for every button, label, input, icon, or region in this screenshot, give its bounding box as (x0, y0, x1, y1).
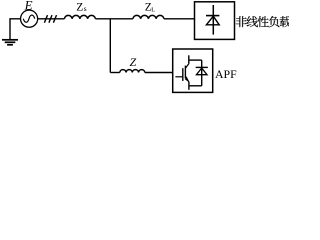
inductor Zs (64, 15, 95, 18)
freewheel diode lead (201, 60, 203, 86)
junction wire down (109, 19, 111, 73)
IGBT emitter lead (188, 82, 190, 90)
AC source E circle (21, 10, 38, 27)
wire ZL to load box (164, 18, 195, 20)
label char 非 (236, 16, 247, 27)
svg-text:L: L (151, 7, 155, 14)
three-phase slashes (44, 15, 56, 23)
IGBT emitter diagonal (185, 76, 189, 82)
wire Zs to junction to ZL (95, 18, 132, 20)
svg-text:E: E (24, 0, 33, 12)
wire junction corner to Z (110, 72, 120, 74)
svg-text:s: s (84, 4, 87, 13)
IGBT collector diagonal (185, 64, 188, 68)
diode D1 cathode bar (206, 15, 219, 17)
freewheel diode bar (196, 66, 208, 68)
nonlinear load box (195, 2, 235, 40)
IGBT channel bar (184, 66, 186, 79)
ground (2, 40, 18, 45)
label char 载 (280, 16, 291, 27)
inductor ZL (133, 15, 164, 18)
wire source to Zs (38, 18, 65, 20)
IGBT collector lead (188, 55, 190, 64)
label char 性 (258, 16, 269, 27)
bottom connector to diode (189, 85, 202, 87)
label char 线 (247, 16, 258, 27)
wire from source to ground corner (10, 19, 21, 40)
sine wave inside source (23, 15, 34, 22)
IGBT gate bar (182, 68, 184, 81)
svg-text:Z: Z (76, 1, 83, 14)
inductor Z (120, 70, 145, 73)
diode D1 triangle (206, 16, 219, 25)
top connector to diode (189, 59, 202, 61)
wire Z to APF box (145, 72, 173, 74)
IGBT gate lead (175, 76, 182, 78)
svg-text:Z: Z (130, 55, 137, 69)
diode D1 vertical lead (212, 5, 214, 35)
freewheel diode triangle (196, 68, 207, 75)
label char 负 (269, 16, 280, 27)
APF box (173, 49, 213, 92)
svg-text:APF: APF (215, 67, 237, 81)
IGBT emitter arrowhead (185, 77, 190, 83)
